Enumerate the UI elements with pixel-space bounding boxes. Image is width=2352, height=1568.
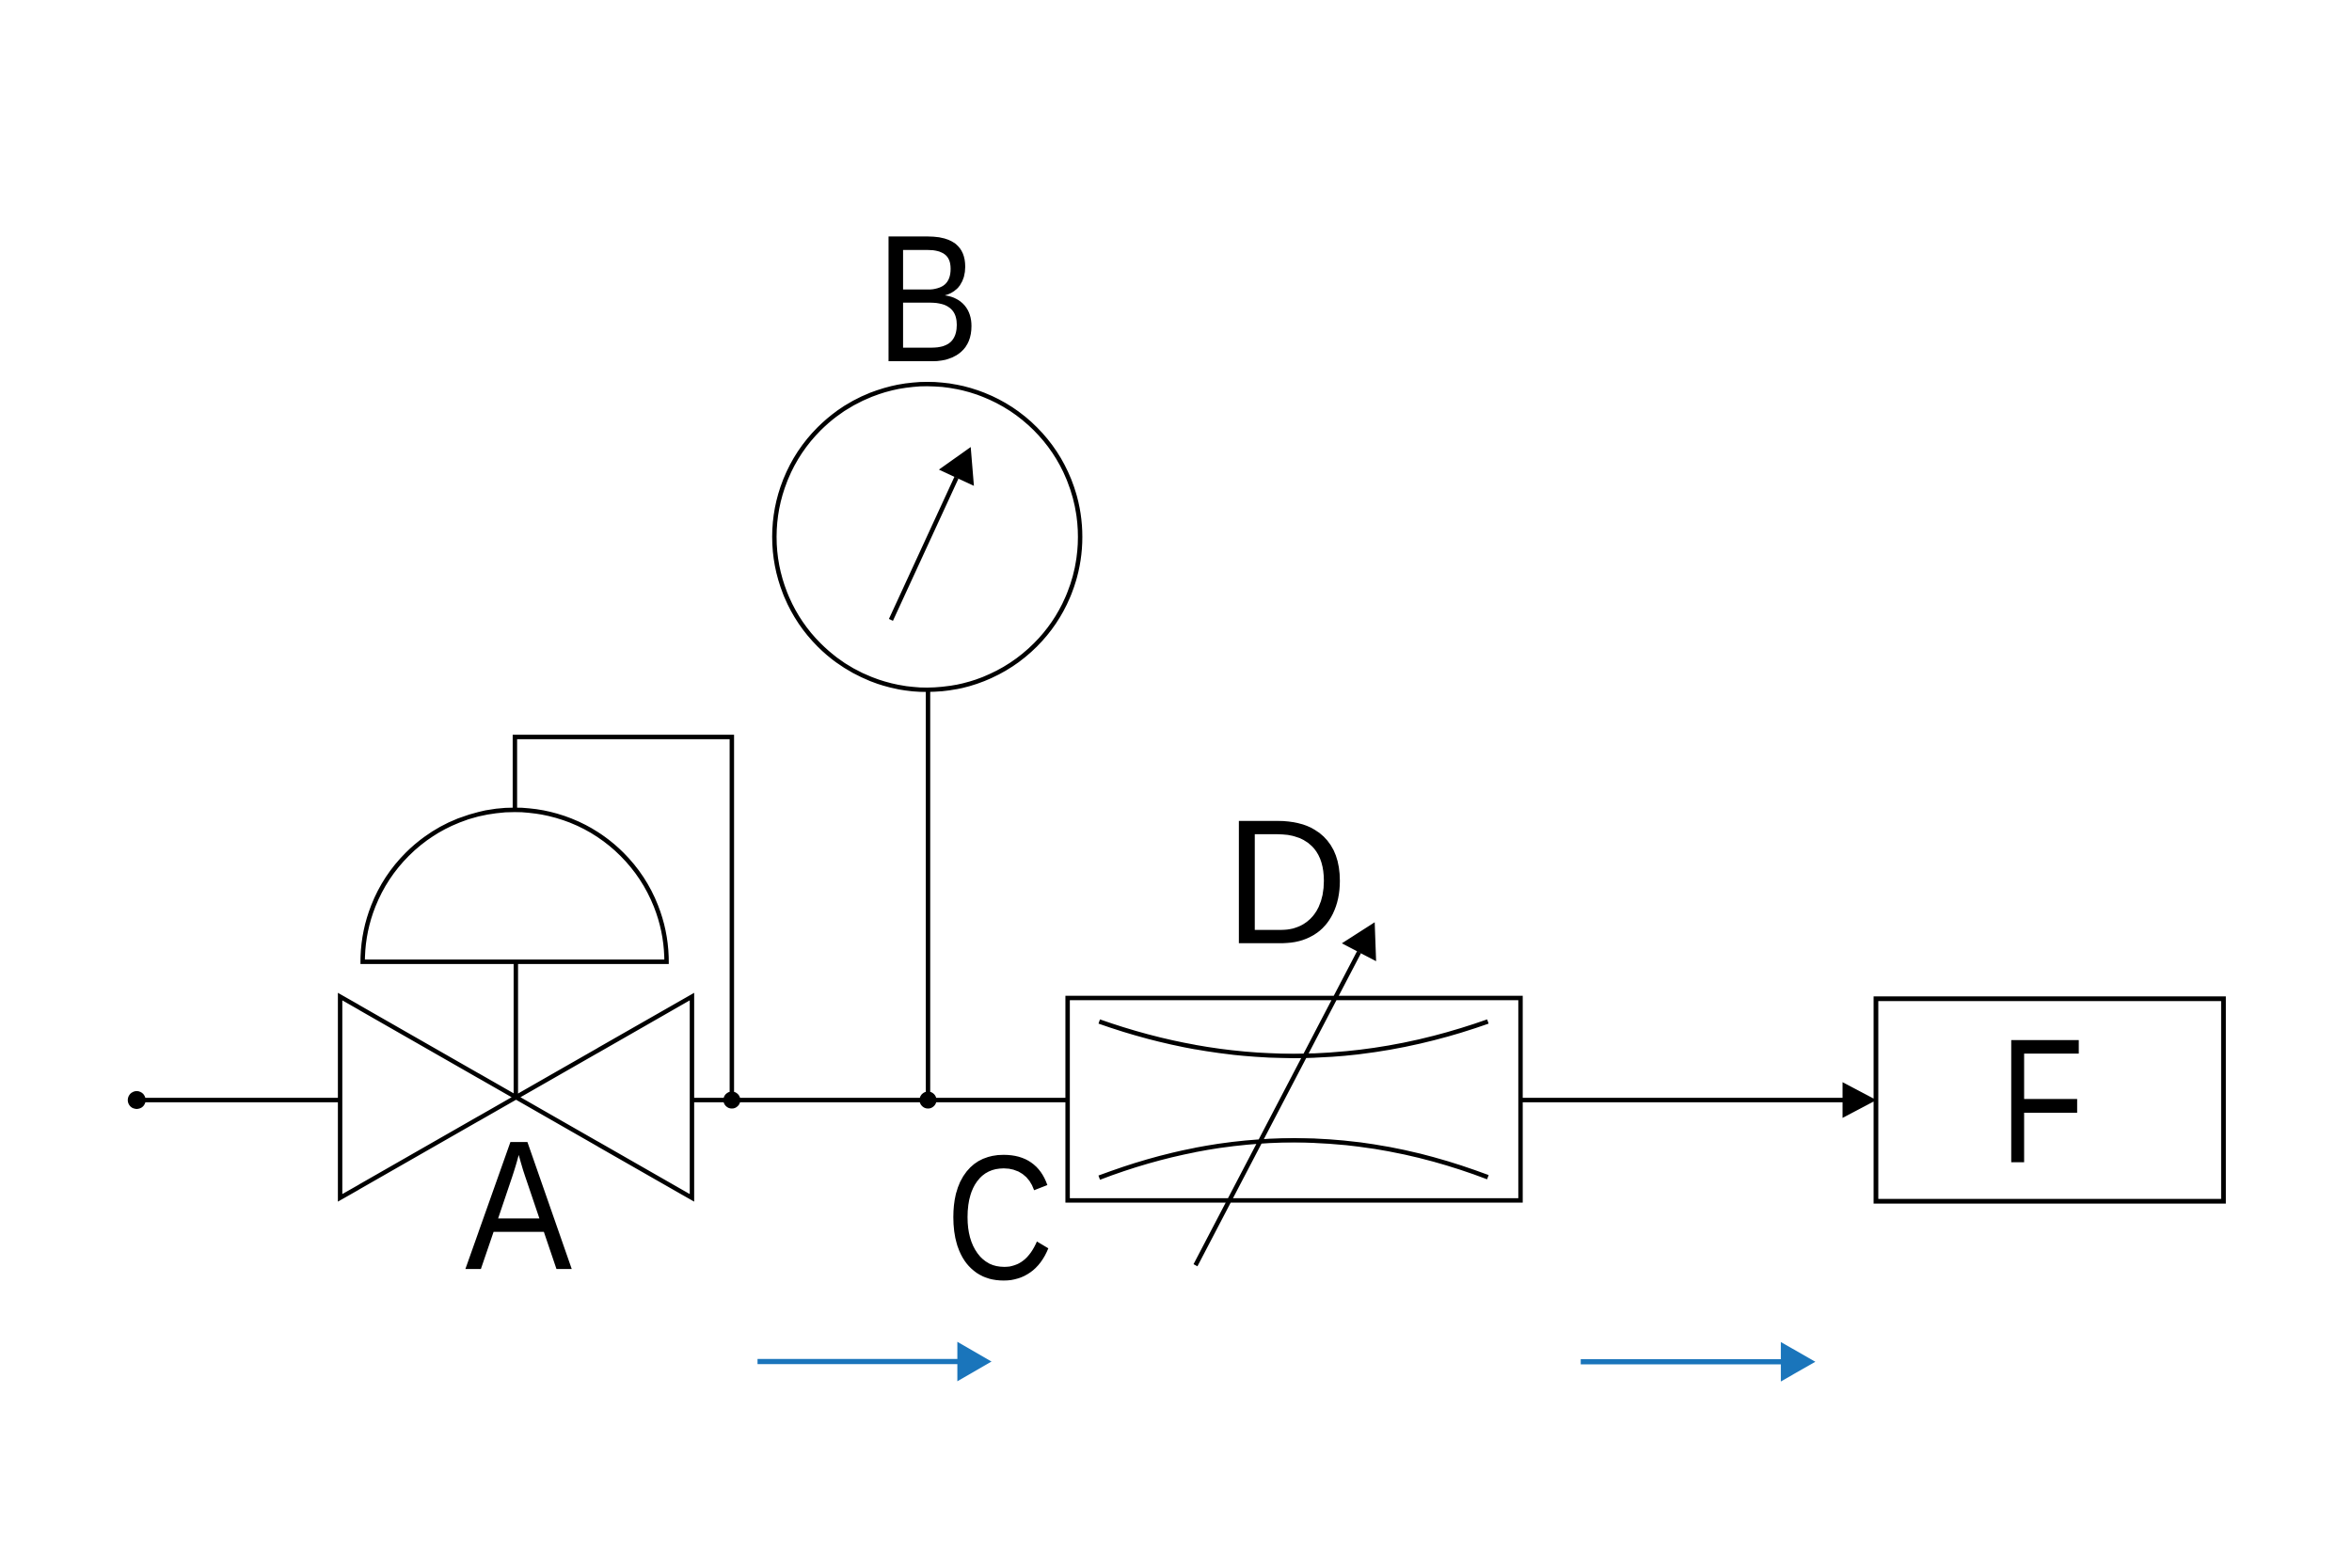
wire: restrictor to load F (1520, 1098, 1843, 1102)
signal line from actuator to downstream tap (515, 737, 732, 1101)
load F box (1876, 999, 2223, 1201)
wire: valve A to restrictor C (692, 1098, 1068, 1102)
venturi upper curve (1099, 1022, 1487, 1056)
wire: inlet to valve A (136, 1098, 340, 1102)
valve A body (bowtie) (341, 997, 692, 1198)
actuator diaphragm dome (363, 810, 667, 962)
variable adjustment arrow shaft (1196, 952, 1359, 1265)
svg-text:C: C (946, 1119, 1054, 1318)
junction: gauge tap node (919, 1092, 936, 1109)
arrowhead into load F (1843, 1083, 1877, 1118)
svg-text:B: B (876, 198, 979, 401)
gauge stem (gauge B to main line) (926, 689, 930, 1101)
node: inlet terminal dot (128, 1091, 146, 1109)
svg-text:A: A (465, 1102, 572, 1308)
flow direction arrow left (blue) shaft (757, 1359, 958, 1365)
venturi lower curve (1099, 1140, 1487, 1178)
junction: signal tap node (723, 1092, 740, 1109)
gauge B needle arrowhead (939, 447, 974, 485)
svg-text:D: D (1225, 783, 1348, 981)
gauge B dial circle (774, 384, 1080, 689)
flow direction arrow right (blue) shaft (1581, 1359, 1782, 1365)
actuator stem (valve to diaphragm) (514, 960, 518, 1100)
flow direction arrow left (blue) head (958, 1342, 992, 1382)
variable adjustment arrowhead D (1342, 923, 1375, 961)
flow direction arrow right (blue) head (1781, 1342, 1816, 1382)
svg-text:F: F (2000, 1002, 2085, 1200)
restrictor C/D body box (1068, 998, 1520, 1200)
gauge B needle (891, 478, 957, 620)
